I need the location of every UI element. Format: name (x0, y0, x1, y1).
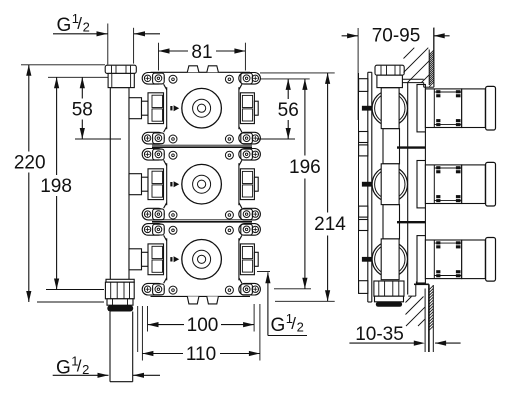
bridge junctions body-to-wall (side) (397, 146, 425, 148)
valve module 1 (front) (129, 73, 260, 144)
fitting: top union nut G1/2 (front) (105, 65, 136, 73)
wire: supply pipe (front view) (110, 88, 129, 283)
svg-text:56: 56 (278, 100, 299, 121)
svg-text:70-95: 70-95 (372, 26, 421, 47)
connector necks between modules (side) (383, 129, 400, 164)
svg-text:10-35: 10-35 (355, 324, 404, 345)
svg-text:81: 81 (191, 42, 212, 63)
svg-text:58: 58 (72, 100, 93, 121)
svg-text:196: 196 (289, 157, 321, 178)
svg-text:214: 214 (314, 214, 346, 235)
cartridge 3 (side) (417, 236, 496, 283)
svg-text:2: 2 (83, 20, 90, 35)
dimension G1/2 bottom-right leader (257, 271, 270, 273)
svg-text:110: 110 (186, 344, 216, 365)
dimension 100 bottom (147, 306, 149, 332)
svg-text:G: G (57, 15, 72, 36)
dimension 220 left (21, 64, 105, 66)
valve ball module 3 (side) (372, 239, 407, 280)
wall section top (hatched) (433, 28, 435, 88)
dimension 214 right (260, 72, 335, 74)
dimension 58 left (75, 138, 121, 140)
dimension 198 left (48, 76, 108, 78)
wall section bottom (hatched) (415, 282, 417, 285)
valve module 3 (front) (129, 224, 260, 295)
svg-text:2: 2 (82, 362, 89, 377)
ledge top right (side) (402, 78, 423, 80)
svg-text:220: 220 (14, 153, 46, 174)
valve ball module 2 (side) (372, 164, 407, 205)
housing: module bottom edge + tabs (151, 295, 251, 297)
svg-text:/: / (77, 356, 82, 375)
svg-text:/: / (77, 14, 82, 33)
port seals on rail (side) (362, 106, 372, 111)
wall face line segments (side) (424, 132, 426, 161)
svg-text:G: G (271, 315, 286, 336)
rear wall plate line (side) (407, 83, 409, 295)
valve module 2 (front) (129, 149, 260, 220)
svg-text:/: / (291, 314, 296, 333)
dimension 56 right (260, 78, 310, 80)
svg-text:198: 198 (40, 176, 72, 197)
mounting plate bar (side) (367, 72, 369, 302)
wire: bottom pipe stub (front) (109, 312, 111, 382)
cartridge 1 (side) (417, 85, 496, 132)
bottom union nut with o-ring (side) (374, 281, 404, 296)
dimension 110 bottom (141, 306, 143, 361)
housing: module boundary lines (152, 144, 252, 146)
svg-text:2: 2 (297, 319, 304, 334)
svg-text:100: 100 (187, 315, 219, 336)
valve ball module 1 (side) (372, 88, 407, 129)
mounting rail edge (side) (358, 73, 360, 293)
fitting: bottom union nut with o-ring (front) (106, 279, 134, 282)
cartridge 2 (side) (417, 161, 496, 208)
dimension 81 top (158, 43, 160, 71)
top union nut (side) (375, 65, 404, 75)
mounting tabs (side) (359, 79, 368, 92)
dimension 196 right (274, 288, 311, 290)
housing: module top edge + tabs (151, 71, 251, 73)
